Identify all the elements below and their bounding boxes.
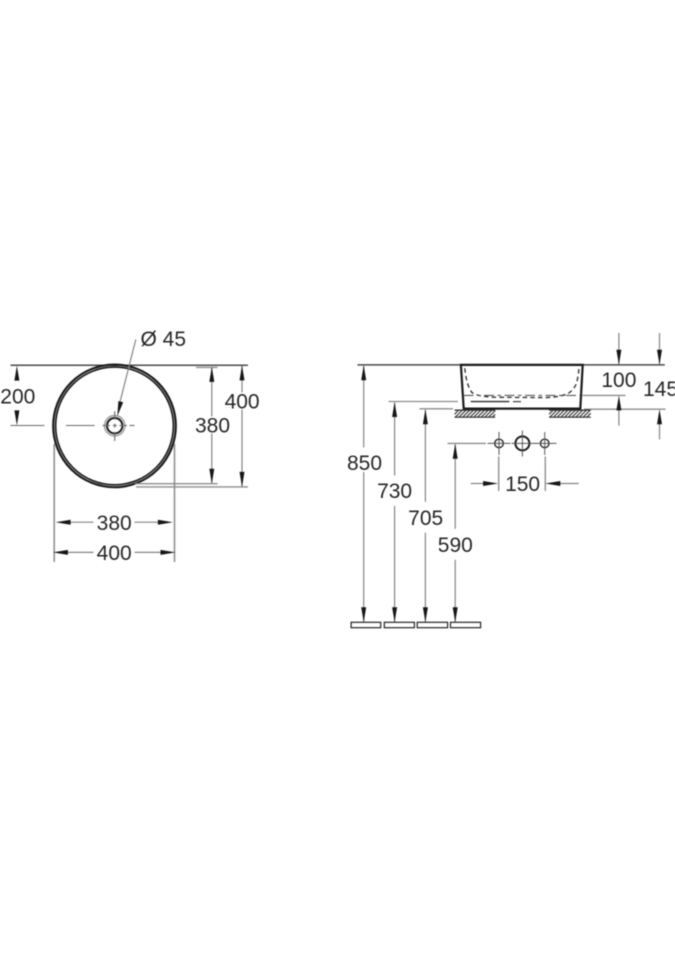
svg-text:705: 705 <box>408 507 443 530</box>
dimension 850 (floor to rim) <box>363 366 365 622</box>
svg-text:150: 150 <box>505 473 540 496</box>
svg-text:590: 590 <box>438 534 473 557</box>
tap hole left small circle <box>495 439 504 448</box>
vertical centerline through drain <box>114 411 116 441</box>
extension line at waterline level right (100) <box>583 394 626 396</box>
svg-text:200: 200 <box>0 385 35 408</box>
basin body outline <box>461 365 583 409</box>
top extension line at rim level <box>358 364 665 366</box>
svg-text:380: 380 <box>195 415 230 438</box>
floor segment 4 <box>451 622 481 627</box>
svg-text:850: 850 <box>347 452 382 475</box>
extension line at tap hole level (590) <box>448 442 487 444</box>
leader line for drain diameter <box>120 340 136 405</box>
extension line at rim bottom (380 level) <box>135 483 218 485</box>
left mounting hatch strip <box>455 410 496 417</box>
extension line at interior bottom level (730) <box>389 401 459 403</box>
tap hole center circle <box>515 436 529 450</box>
basin inner rim circle <box>56 367 174 485</box>
svg-text:400: 400 <box>97 542 132 565</box>
dimension 705 (floor to ceramic bottom) <box>424 410 426 622</box>
extension line at ceramic bottom level right (145) <box>584 408 666 410</box>
svg-text:400: 400 <box>225 390 260 413</box>
interior bowl dashed profile <box>465 368 579 397</box>
dimension 100 (right, rim to waterline) <box>618 333 620 364</box>
interior bottom visible edge <box>471 401 510 403</box>
extension line below left tap hole <box>498 457 500 492</box>
svg-text:Ø 45: Ø 45 <box>141 328 187 351</box>
basin outer circle <box>53 365 176 488</box>
horizontal centerline <box>11 425 135 427</box>
floor segment 3 <box>417 622 447 627</box>
dimension 380 vertical (right of circle) <box>211 367 213 483</box>
extension line at circle bottom (400 level) <box>136 486 248 488</box>
tangent extension line at basin top level <box>11 364 248 366</box>
vertical extension line right of circle <box>174 444 176 562</box>
dimension 590 (floor to tap hole line) <box>454 445 456 622</box>
dimension 400 vertical (far right of circle) <box>241 366 243 487</box>
vertical extension line left of circle <box>53 444 55 562</box>
dimension 150 (tap holes) <box>471 483 486 485</box>
svg-text:145: 145 <box>643 378 675 401</box>
floor segment 2 <box>384 622 414 627</box>
dimension 400 horizontal (below circle) <box>66 551 163 553</box>
floor segment 1 <box>351 622 381 627</box>
right mounting hatch strip <box>549 410 591 417</box>
interior waterline dash line <box>464 394 581 396</box>
extension line below right tap hole <box>544 457 546 492</box>
svg-text:730: 730 <box>377 480 412 503</box>
extension line at ceramic bottom level left (705) <box>419 408 453 410</box>
dimension 200 (left) <box>14 366 19 381</box>
drain inner circle <box>107 418 122 433</box>
svg-text:100: 100 <box>601 369 636 392</box>
rim-top extension line (380) <box>196 366 218 368</box>
dimension 380 horizontal (below circle) <box>69 521 161 523</box>
dimension 145 (right, rim to ceramic bottom) <box>659 333 661 364</box>
tap hole right small circle <box>540 439 549 448</box>
svg-text:380: 380 <box>97 512 132 535</box>
drain outer circle <box>105 416 125 436</box>
dimension 730 (floor to interior bottom) <box>394 403 396 622</box>
tap hole cross lines <box>488 431 557 457</box>
